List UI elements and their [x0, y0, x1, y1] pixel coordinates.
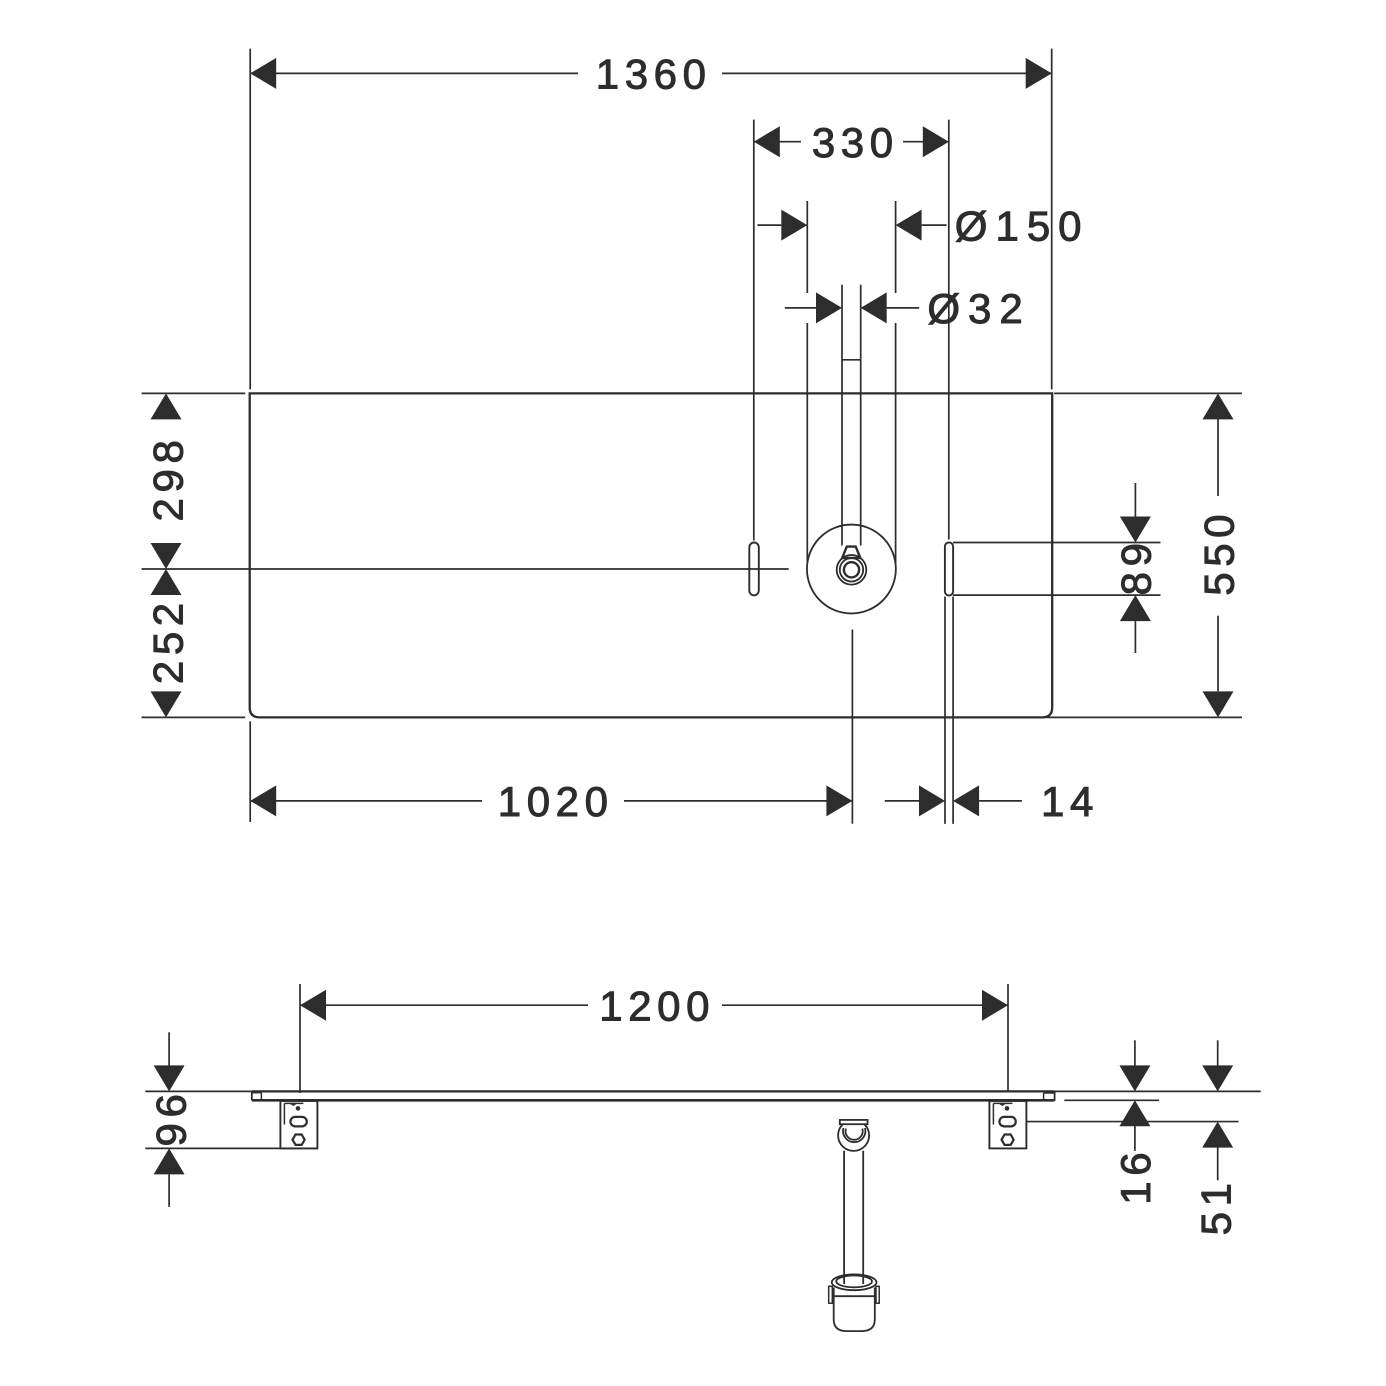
svg-text:Ø150: Ø150	[955, 202, 1090, 249]
svg-text:51: 51	[1192, 1177, 1239, 1235]
svg-text:550: 550	[1195, 509, 1242, 596]
svg-text:252: 252	[145, 597, 192, 684]
svg-text:96: 96	[147, 1089, 194, 1147]
svg-text:330: 330	[812, 119, 899, 166]
svg-text:89: 89	[1112, 537, 1159, 595]
svg-text:1200: 1200	[599, 982, 715, 1029]
svg-text:Ø32: Ø32	[927, 285, 1030, 332]
svg-text:298: 298	[145, 435, 192, 522]
svg-text:1360: 1360	[596, 51, 712, 98]
svg-text:1020: 1020	[498, 778, 614, 825]
svg-text:14: 14	[1041, 778, 1099, 825]
svg-text:16: 16	[1112, 1147, 1159, 1205]
